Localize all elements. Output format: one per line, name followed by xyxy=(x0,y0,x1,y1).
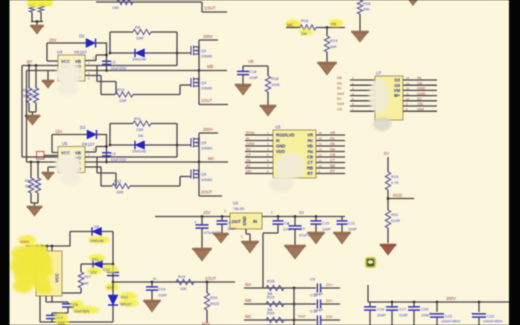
svg-text:Vref: Vref xyxy=(337,92,345,96)
svg-text:100uF/450V: 100uF/450V xyxy=(441,320,461,324)
svg-text:5V: 5V xyxy=(417,97,422,101)
svg-text:CF: CF xyxy=(246,153,252,157)
svg-text:C9: C9 xyxy=(300,227,305,231)
svg-text:C10: C10 xyxy=(322,221,330,226)
svg-text:R30: R30 xyxy=(267,311,275,316)
svg-text:15K: 15K xyxy=(112,5,119,10)
svg-text:AT: AT xyxy=(246,164,251,168)
svg-text:1OUT: 1OUT xyxy=(205,276,217,281)
svg-text:14: 14 xyxy=(319,142,323,146)
svg-text:GND: GND xyxy=(417,92,426,96)
svg-text:300V: 300V xyxy=(446,296,456,301)
svg-text:11: 11 xyxy=(406,92,409,96)
svg-text:15: 15 xyxy=(319,137,323,141)
svg-text:12: 12 xyxy=(319,153,323,157)
svg-text:5V: 5V xyxy=(246,148,251,152)
svg-text:D8: D8 xyxy=(94,225,99,229)
svg-text:U2: U2 xyxy=(233,201,239,206)
svg-text:GND: GND xyxy=(276,144,285,149)
svg-text:D2+: D2+ xyxy=(326,299,334,303)
svg-text:1N4148: 1N4148 xyxy=(132,149,146,154)
svg-text:Q4: Q4 xyxy=(201,80,207,85)
svg-text:C12: C12 xyxy=(103,268,110,272)
svg-text:12V: 12V xyxy=(90,271,97,275)
svg-text:14: 14 xyxy=(406,76,410,80)
svg-text:D6: D6 xyxy=(138,133,144,138)
svg-text:15R: 15R xyxy=(136,127,143,132)
svg-text:R25: R25 xyxy=(363,1,371,6)
svg-text:C19: C19 xyxy=(158,287,166,292)
svg-text:5V: 5V xyxy=(337,87,342,91)
svg-text:R15: R15 xyxy=(391,174,399,179)
svg-text:2OUT: 2OUT xyxy=(201,190,213,195)
svg-text:BB: BB xyxy=(330,164,336,168)
svg-text:R8: R8 xyxy=(135,25,141,30)
svg-text:10: 10 xyxy=(406,97,410,101)
svg-text:13: 13 xyxy=(406,81,410,85)
svg-text:D11: D11 xyxy=(92,258,99,262)
svg-text:CB: CB xyxy=(330,153,336,157)
svg-text:GND: GND xyxy=(242,216,247,225)
svg-text:R19: R19 xyxy=(178,274,186,279)
svg-text:300V: 300V xyxy=(203,127,213,132)
svg-text:D2: D2 xyxy=(79,34,85,39)
svg-text:1M: 1M xyxy=(301,31,307,36)
svg-text:C17: C17 xyxy=(399,307,407,312)
svg-text:RT: RT xyxy=(330,170,336,174)
svg-text:C20: C20 xyxy=(421,307,429,312)
svg-text:Vref: Vref xyxy=(417,107,425,111)
svg-text:300V: 300V xyxy=(203,34,213,39)
svg-text:U5: U5 xyxy=(62,141,68,146)
svg-text:C11: C11 xyxy=(348,221,356,226)
svg-text:Hb: Hb xyxy=(307,144,313,149)
svg-text:VCC: VCC xyxy=(55,273,60,283)
svg-text:Q1: Q1 xyxy=(201,48,207,53)
svg-text:ROD: ROD xyxy=(393,193,402,198)
svg-text:R29: R29 xyxy=(267,295,275,300)
svg-text:C11: C11 xyxy=(310,309,318,314)
svg-text:Vref: Vref xyxy=(298,314,306,319)
svg-text:R12: R12 xyxy=(114,179,122,184)
svg-text:O4: O4 xyxy=(417,81,422,85)
svg-text:300V: 300V xyxy=(20,239,30,244)
svg-text:Hc: Hc xyxy=(330,137,335,141)
svg-text:R18: R18 xyxy=(271,76,279,81)
svg-text:In: In xyxy=(153,276,156,281)
svg-text:104P: 104P xyxy=(399,314,408,318)
svg-text:C5: C5 xyxy=(73,303,78,307)
svg-text:10N60: 10N60 xyxy=(201,55,212,59)
svg-text:C10: C10 xyxy=(310,293,318,298)
svg-text:VR: VR xyxy=(307,133,313,138)
svg-text:MC: MC xyxy=(245,314,252,319)
svg-text:R6: R6 xyxy=(33,179,38,183)
svg-text:SR107: SR107 xyxy=(120,303,132,307)
svg-text:16: 16 xyxy=(319,131,323,135)
svg-text:Vref: Vref xyxy=(337,102,345,106)
svg-text:GND: GND xyxy=(417,87,426,91)
svg-text:+: + xyxy=(194,220,197,225)
svg-text:R20: R20 xyxy=(210,295,218,300)
svg-text:ROD: ROD xyxy=(246,131,255,135)
svg-text:+: + xyxy=(429,311,432,316)
svg-text:15R: 15R xyxy=(116,190,123,195)
svg-text:D3+: D3+ xyxy=(326,315,334,319)
svg-text:Q6: Q6 xyxy=(201,172,207,177)
svg-text:VDD: VDD xyxy=(276,149,285,154)
svg-text:MC: MC xyxy=(287,23,294,28)
svg-text:C21: C21 xyxy=(445,314,453,319)
svg-text:Hs: Hs xyxy=(246,159,251,163)
svg-text:10K: 10K xyxy=(180,287,187,291)
svg-text:M+: M+ xyxy=(394,93,400,98)
svg-text:MB: MB xyxy=(207,64,213,69)
svg-text:C2: C2 xyxy=(111,60,117,65)
svg-text:5V: 5V xyxy=(299,210,304,215)
svg-text:In: In xyxy=(246,137,249,141)
svg-text:1OUT: 1OUT xyxy=(204,6,216,11)
svg-text:104P: 104P xyxy=(377,314,386,318)
svg-text:R28: R28 xyxy=(267,279,275,284)
svg-text:D1+: D1+ xyxy=(326,283,334,287)
svg-text:U3: U3 xyxy=(275,125,281,130)
svg-text:R27: R27 xyxy=(84,275,91,279)
svg-text:104P: 104P xyxy=(322,228,331,232)
svg-text:VB: VB xyxy=(248,59,254,64)
svg-text:30K: 30K xyxy=(33,185,40,189)
svg-text:C6: C6 xyxy=(337,107,342,111)
svg-text:4.7K: 4.7K xyxy=(391,181,399,185)
svg-text:Hs: Hs xyxy=(331,22,336,27)
svg-text:15V: 15V xyxy=(49,38,57,43)
svg-text:R4: R4 xyxy=(31,89,36,93)
svg-text:Hb: Hb xyxy=(330,142,335,146)
svg-text:610R: 610R xyxy=(391,219,400,223)
svg-text:C16: C16 xyxy=(377,307,385,312)
svg-text:C7: C7 xyxy=(228,220,234,225)
svg-text:10uF/50V: 10uF/50V xyxy=(74,310,90,314)
svg-text:R10: R10 xyxy=(117,87,125,92)
svg-text:30K: 30K xyxy=(25,185,32,189)
svg-text:5K: 5K xyxy=(84,282,89,286)
svg-text:1: 1 xyxy=(271,211,273,215)
svg-text:R5: R5 xyxy=(25,179,30,183)
svg-text:30K: 30K xyxy=(31,94,38,98)
svg-text:U7: U7 xyxy=(376,71,382,76)
svg-text:MA: MA xyxy=(245,282,251,287)
svg-text:RT: RT xyxy=(307,171,313,176)
svg-text:15v: 15v xyxy=(417,102,423,106)
svg-text:15V: 15V xyxy=(55,129,63,134)
svg-text:RGD/LVD: RGD/LVD xyxy=(276,133,295,138)
svg-text:10: 10 xyxy=(319,164,323,168)
svg-text:Hc: Hc xyxy=(417,76,422,80)
svg-text:2: 2 xyxy=(241,235,243,239)
svg-text:223: 223 xyxy=(58,322,64,325)
svg-text:C22: C22 xyxy=(487,314,495,319)
svg-text:GND: GND xyxy=(246,142,255,146)
svg-text:104P: 104P xyxy=(348,228,357,232)
svg-text:78L05: 78L05 xyxy=(233,206,245,211)
svg-text:MC: MC xyxy=(208,156,215,161)
svg-text:U4: U4 xyxy=(57,50,63,55)
svg-text:30K: 30K xyxy=(363,8,370,12)
svg-text:In: In xyxy=(276,138,280,143)
svg-text:104P: 104P xyxy=(227,227,236,231)
svg-text:104P: 104P xyxy=(158,294,167,298)
svg-text:15V: 15V xyxy=(203,210,211,215)
svg-text:RD1: RD1 xyxy=(202,321,211,325)
svg-text:CT: CT xyxy=(307,160,313,165)
svg-text:Q3: Q3 xyxy=(201,140,207,145)
svg-text:Hc: Hc xyxy=(308,138,314,143)
svg-text:OUT: OUT xyxy=(232,219,241,224)
svg-text:R31: R31 xyxy=(391,212,399,217)
svg-text:104P: 104P xyxy=(249,76,258,80)
svg-text:BT: BT xyxy=(27,60,33,65)
svg-text:D10: D10 xyxy=(121,296,128,300)
svg-text:Hb: Hb xyxy=(337,76,342,80)
svg-text:1N4148: 1N4148 xyxy=(132,57,146,62)
svg-text:RB: RB xyxy=(307,166,313,171)
svg-text:Ha: Ha xyxy=(308,149,314,154)
svg-text:15R: 15R xyxy=(119,98,126,103)
svg-text:CB: CB xyxy=(307,155,313,160)
svg-text:3: 3 xyxy=(224,210,226,214)
svg-text:VR: VR xyxy=(330,131,336,135)
svg-text:R022: R022 xyxy=(210,302,219,306)
svg-text:MC: MC xyxy=(246,170,252,174)
svg-text:D+: D+ xyxy=(337,97,343,101)
svg-text:1N4148: 1N4148 xyxy=(90,239,103,243)
svg-text:CT: CT xyxy=(330,159,336,163)
svg-text:5V: 5V xyxy=(384,151,389,156)
svg-text:10N60: 10N60 xyxy=(201,178,212,182)
svg-text:10N60: 10N60 xyxy=(201,147,212,151)
svg-text:IN: IN xyxy=(253,219,257,224)
svg-text:D3: D3 xyxy=(80,125,86,130)
svg-text:10N60: 10N60 xyxy=(201,87,212,91)
svg-text:13: 13 xyxy=(319,148,323,152)
svg-text:C3: C3 xyxy=(111,151,117,156)
svg-text:+: + xyxy=(287,222,290,227)
svg-text:C18: C18 xyxy=(249,69,257,74)
svg-text:FR107: FR107 xyxy=(74,50,87,55)
svg-text:R11: R11 xyxy=(134,116,142,121)
svg-text:15R: 15R xyxy=(136,36,143,41)
svg-text:100uF/450V: 100uF/450V xyxy=(483,320,503,324)
svg-text:100K: 100K xyxy=(271,83,280,87)
svg-text:R16: R16 xyxy=(301,18,309,23)
svg-text:MB: MB xyxy=(245,298,251,303)
svg-text:30K: 30K xyxy=(330,45,337,49)
svg-text:11: 11 xyxy=(319,159,322,163)
svg-text:12: 12 xyxy=(406,87,410,91)
svg-text:1OUT: 1OUT xyxy=(201,98,213,103)
svg-text:R24: R24 xyxy=(330,38,338,43)
svg-text:C9: C9 xyxy=(310,277,316,282)
svg-text:+: + xyxy=(471,311,474,316)
